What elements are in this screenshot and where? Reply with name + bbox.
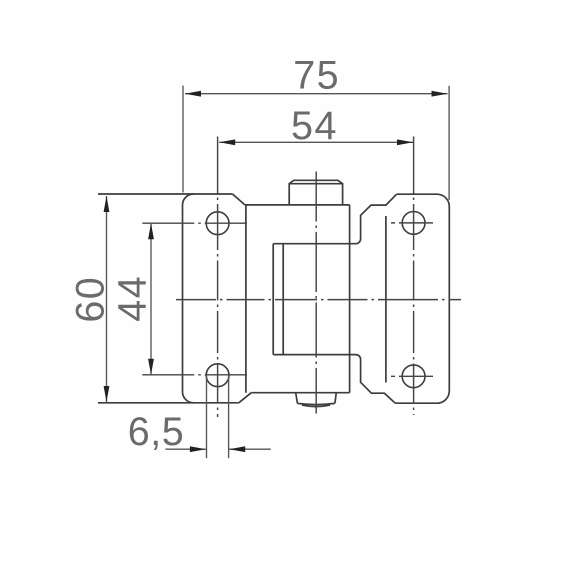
svg-text:44: 44 — [111, 275, 155, 322]
centerline left hole column — [217, 137, 219, 418]
hole bottom-left — [206, 364, 229, 387]
hole bottom-right — [402, 365, 425, 388]
arrow 6,5 right — [229, 446, 245, 452]
svg-text:60: 60 — [68, 276, 112, 323]
centerline bottom-left hole with 44 extension — [142, 374, 247, 376]
arrow 60 bottom — [104, 386, 110, 402]
left plate top chamfer — [233, 194, 245, 205]
left leaf fold line — [245, 205, 247, 393]
dim 54 line — [219, 141, 413, 143]
svg-text:6,5: 6,5 — [128, 410, 184, 454]
pin bottom cap outer arc — [297, 403, 335, 404]
dim 44 line — [150, 223, 152, 375]
centerline top-right hole — [391, 222, 437, 224]
arrow 75 right — [432, 91, 448, 97]
dim 6,5 line left segment — [165, 448, 206, 450]
central box top edge — [245, 204, 350, 206]
right leaf lower notch outline — [273, 355, 395, 404]
dim 75 left extension line — [182, 86, 184, 193]
knuckle slot left line — [272, 244, 274, 355]
arrow 54 left — [219, 139, 235, 145]
hole top-right — [402, 212, 425, 235]
left plate left edge with rounded corners — [183, 194, 194, 403]
dim 75 line — [185, 93, 448, 95]
left plate top edge with 60-dim extension — [98, 193, 233, 195]
pin top cap base line — [289, 183, 342, 185]
dim 6,5 line right segment — [229, 448, 271, 450]
right plate outline with rounded corners — [395, 194, 449, 403]
knuckle slot right line — [282, 244, 284, 355]
dim 75 right extension line — [448, 86, 450, 200]
pin top cap — [289, 180, 342, 205]
svg-text:54: 54 — [291, 104, 338, 148]
arrow 6,5 left — [190, 446, 206, 452]
left plate bottom chamfer — [239, 393, 252, 403]
dim 6,5 right extension line — [228, 376, 230, 458]
dim 60 line — [106, 196, 108, 402]
central box bottom edge — [251, 392, 349, 394]
arrow 60 top — [104, 196, 110, 212]
central box right edge — [349, 205, 351, 393]
arrow 54 right — [397, 139, 413, 145]
pin bottom cap inner arc — [302, 405, 330, 407]
centerline bottom-right hole — [391, 375, 437, 377]
arrow 75 left — [185, 91, 201, 97]
centerline horizontal mid — [176, 299, 461, 301]
centerline right hole column — [413, 137, 415, 416]
dim 6,5 left extension line — [206, 376, 208, 458]
centerline pin axis — [315, 172, 317, 414]
right leaf fold line — [385, 216, 387, 383]
right leaf upper notch outline — [273, 194, 396, 244]
hole top-left — [206, 212, 229, 235]
arrow 44 bottom — [148, 359, 154, 375]
arrow 44 top — [148, 223, 154, 239]
svg-text:75: 75 — [293, 54, 340, 98]
pin bottom cap — [296, 393, 336, 403]
centerline top-left hole with 44 extension — [142, 222, 247, 224]
left plate bottom edge with 60-dim extension — [98, 402, 239, 404]
